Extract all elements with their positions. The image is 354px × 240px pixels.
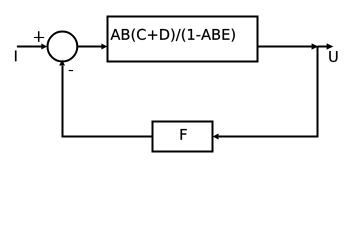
arrowhead output U	[327, 43, 334, 49]
wire input I to summer	[17, 46, 42, 48]
block G value label AB(C+D)/(1-ABE)	[111, 29, 235, 42]
minus sign label	[69, 70, 73, 72]
wire junction to output	[318, 46, 327, 48]
arrowhead at junction	[312, 43, 319, 49]
arrowhead into block F	[213, 134, 219, 140]
wire block G to junction	[258, 46, 313, 48]
wire summer to block G	[77, 46, 102, 48]
summing junction circle	[48, 32, 78, 62]
arrowhead into summer bottom	[59, 60, 65, 66]
block F	[153, 122, 213, 152]
arrowhead into block G	[101, 44, 107, 50]
wire block F to left vertical + feedback vertical left	[63, 66, 153, 137]
node U label	[329, 51, 337, 62]
plus sign label	[34, 37, 44, 39]
block G	[108, 17, 258, 62]
node I label	[15, 51, 16, 62]
arrowhead into summer	[41, 44, 47, 50]
wire feedback vertical right + bottom to block F	[219, 47, 318, 137]
block F value label F	[181, 129, 187, 140]
